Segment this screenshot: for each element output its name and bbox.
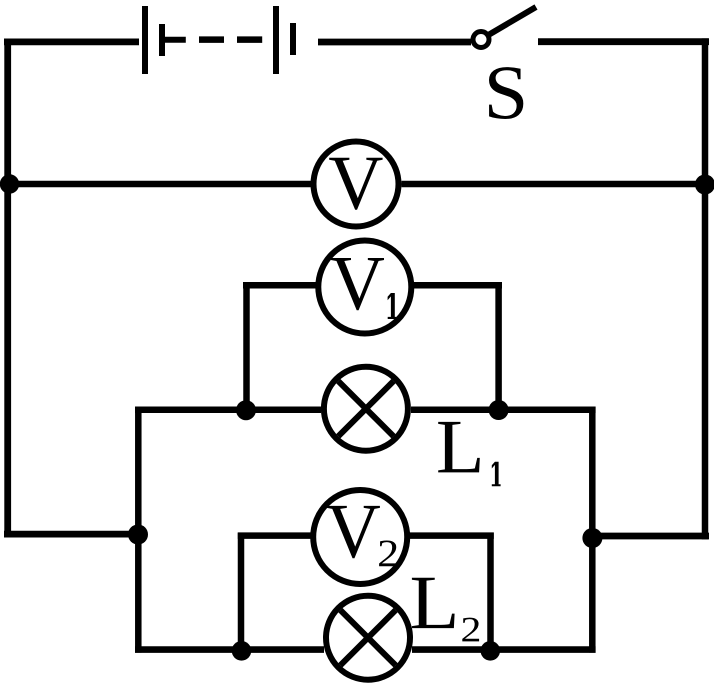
dash segment 2 <box>237 36 262 43</box>
battery cell 1 short plate (-) <box>159 24 165 56</box>
right loop vertical wire <box>589 407 596 653</box>
wire L1 row left <box>135 407 321 414</box>
node junction dot V1 left on L1 row <box>236 400 256 420</box>
V1 bracket left vertical wire <box>243 282 250 410</box>
right bus vertical wire <box>702 38 709 539</box>
battery cell 2 short plate (-) <box>290 23 296 55</box>
label S (switch) <box>489 67 523 119</box>
V1 bracket right horizontal wire <box>414 282 503 289</box>
lamp L1 cross stroke 1 <box>338 381 393 436</box>
label L1 subscript 1 <box>492 462 501 487</box>
node junction dot left bus / left loop <box>128 525 148 545</box>
wire L1 row right <box>411 407 596 414</box>
voltmeter U-V circle <box>314 142 399 227</box>
V1 bracket left horizontal wire <box>243 282 317 289</box>
V2 bracket left horizontal wire <box>238 532 311 539</box>
V2 bracket left vertical wire <box>238 533 245 651</box>
V2 bracket right vertical wire <box>487 533 494 651</box>
V1 bracket right vertical wire <box>495 282 502 410</box>
dashed wire (additional cells) stub <box>165 37 186 43</box>
switch S lever <box>488 7 537 36</box>
label V1 subscript 1 <box>388 293 397 319</box>
left loop vertical wire <box>135 407 142 653</box>
wire switch to top-right corner <box>538 38 709 45</box>
label L1 letter L <box>438 422 480 473</box>
wire L2 row right <box>412 646 596 653</box>
lamp L2 cross stroke 1 <box>340 610 395 665</box>
battery cell 1 long plate (+) <box>142 6 148 74</box>
lamp L2 cross stroke 2 <box>340 610 395 665</box>
wire V row right <box>402 181 710 188</box>
lamp L1 cross stroke 2 <box>338 381 393 436</box>
node junction dot right bus / right loop <box>582 528 602 548</box>
label L2 letter L <box>412 578 455 628</box>
wire V row left <box>4 181 311 188</box>
voltmeter U-V2 circle <box>313 490 407 584</box>
switch S pivot circle <box>473 32 489 48</box>
node junction dot right bus / V row <box>695 175 714 195</box>
V2 bracket right horizontal wire <box>410 532 494 539</box>
left bus vertical wire <box>4 39 11 538</box>
label V1 letter V <box>331 258 384 310</box>
node junction dot V2 right on L2 row <box>481 641 501 661</box>
node junction dot left bus / V row <box>0 174 19 193</box>
wire bottom connector left <box>4 531 142 538</box>
wire bottom connector right <box>589 533 709 540</box>
lamp L2 circle <box>326 596 410 680</box>
dash segment 1 <box>199 36 224 43</box>
wire L2 row left <box>135 646 324 653</box>
node junction dot V1 right on L1 row <box>489 400 509 420</box>
label V2 letter V <box>327 506 380 558</box>
label L2 subscript 2 <box>462 618 479 642</box>
battery cell 2 long plate (+) <box>273 6 279 74</box>
voltmeter U-V1 circle <box>318 241 411 334</box>
label V (voltmeter V) <box>329 158 382 210</box>
lamp L1 circle <box>324 367 408 451</box>
label V2 subscript 2 <box>379 540 397 566</box>
node junction dot V2 left on L2 row <box>232 641 252 661</box>
wire top-left from left bus to battery <box>4 39 139 46</box>
wire battery to switch <box>318 39 471 46</box>
